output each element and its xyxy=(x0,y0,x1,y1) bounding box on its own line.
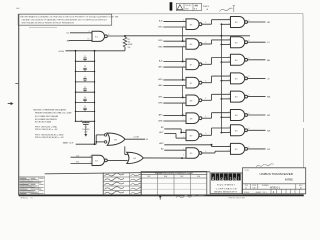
svg-text:4: 4 xyxy=(229,126,230,128)
svg-text:6: 6 xyxy=(248,147,249,149)
svg-text:3: 3 xyxy=(205,42,206,44)
row 8 output route xyxy=(202,152,215,154)
signature block xyxy=(140,172,142,196)
svg-text:3: 3 xyxy=(205,98,206,100)
wire +5 net xyxy=(125,35,250,37)
resistor R1 xyxy=(123,37,127,47)
svg-text:CHG NO: CHG NO xyxy=(185,5,192,7)
svg-text:3: 3 xyxy=(205,81,206,83)
svg-text:REV.: REV. xyxy=(299,185,303,187)
svg-text:6: 6 xyxy=(248,40,249,42)
+5 rail vertical xyxy=(220,24,222,132)
row 1 output route xyxy=(202,23,212,25)
svg-text:5: 5 xyxy=(229,97,230,99)
wire E4 out xyxy=(108,159,128,161)
wire MAST CLR xyxy=(76,143,97,145)
row 4 output route xyxy=(202,82,212,84)
svg-text:4: 4 xyxy=(90,155,91,157)
row 3 gate E7 nand xyxy=(186,59,199,70)
svg-text:4: 4 xyxy=(229,145,230,147)
signature squiggle 4 xyxy=(105,187,125,190)
svg-text:6: 6 xyxy=(248,20,249,22)
svg-text:6: 6 xyxy=(248,113,249,115)
svg-text:C2: C2 xyxy=(84,56,86,58)
svg-text:i: i xyxy=(225,176,226,181)
svg-text:M785-0-1: M785-0-1 xyxy=(21,197,28,199)
svg-text:PIN 7 ON E1,E5 = GND: PIN 7 ON E1,E5 = GND xyxy=(35,126,58,128)
row 3 output wire xyxy=(248,59,266,61)
wire E5 out long xyxy=(143,157,182,159)
svg-text:5: 5 xyxy=(229,150,230,152)
handwritten note xyxy=(256,164,274,167)
wire to gate inputs xyxy=(95,135,97,144)
wire output to R1 node xyxy=(108,35,125,37)
row 7 rail stub xyxy=(221,132,230,134)
zone tick xyxy=(15,83,18,85)
svg-text:7069 B: 7069 B xyxy=(203,6,210,8)
border frame bottom xyxy=(19,194,304,196)
row 1 output wire xyxy=(248,21,266,23)
svg-text:3: 3 xyxy=(205,151,206,153)
svg-text:UNLESS OTHERWISE INDICATED:: UNLESS OTHERWISE INDICATED: xyxy=(33,109,67,112)
border frame left xyxy=(18,14,20,195)
svg-text:1: 1 xyxy=(183,149,184,151)
svg-text:4: 4 xyxy=(229,93,230,95)
svg-text:1: 1 xyxy=(183,40,184,42)
row 3 gate E3 nand2 xyxy=(231,54,245,65)
row 6 rail stub xyxy=(221,116,230,118)
notes box xyxy=(18,14,112,25)
row 6 gate E4 nand2 xyxy=(231,110,245,121)
ladder left rail xyxy=(75,51,77,122)
row 8 output wire xyxy=(248,148,266,150)
svg-text:+DCA: +DCA xyxy=(58,50,64,53)
row 2 gate E2 nand2 xyxy=(231,37,245,48)
svg-text:4: 4 xyxy=(229,75,230,77)
row 1 gate E6 nand xyxy=(186,19,199,30)
wire input 1 xyxy=(70,32,92,34)
revision bar xyxy=(170,2,173,10)
svg-text:5: 5 xyxy=(90,162,91,164)
svg-text:C4: C4 xyxy=(84,77,86,79)
svg-text:1: 1 xyxy=(183,96,184,98)
svg-text:C7: C7 xyxy=(84,106,86,108)
digital logo box xyxy=(210,173,242,194)
svg-text:i: i xyxy=(217,176,218,181)
row 8 gate E5 nand2 xyxy=(231,143,245,154)
wire or input1 feed xyxy=(124,146,126,154)
digital logo squares xyxy=(211,174,215,181)
row 2 output wire xyxy=(248,41,266,43)
row 1 rail stub xyxy=(221,23,230,25)
gate E1 nand xyxy=(92,31,105,41)
border frame right xyxy=(302,14,304,122)
row 4 output wire xyxy=(248,77,266,79)
svg-text:SHEET 1 OF 1: SHEET 1 OF 1 xyxy=(256,192,267,194)
svg-text:5%: 5% xyxy=(128,47,131,49)
row 8 gate E9 nand xyxy=(186,148,199,159)
svg-text:C6: C6 xyxy=(84,97,86,99)
svg-text:1: 1 xyxy=(183,20,184,22)
row 5 output wire xyxy=(248,96,266,98)
strip left boundary xyxy=(102,173,104,196)
svg-text:3: 3 xyxy=(205,116,206,118)
border frame top xyxy=(19,13,303,15)
svg-text:1: 1 xyxy=(183,60,184,62)
wire ladder rung 5 xyxy=(76,102,95,104)
svg-text:PIN 7 ON E2,E3,E4,E5 = GND: PIN 7 ON E2,E3,E4,E5 = GND xyxy=(35,134,64,136)
up arrow annotation xyxy=(159,196,161,200)
svg-text:5: 5 xyxy=(229,79,230,81)
revision triangle xyxy=(177,5,183,10)
chain vertical row 2 xyxy=(182,47,184,62)
svg-text:PRINTED CIRCUIT REV.: PRINTED CIRCUIT REV. xyxy=(229,198,246,200)
ladder right rail xyxy=(94,51,96,144)
title strip top line xyxy=(45,172,210,174)
svg-text:C3: C3 xyxy=(84,66,86,68)
svg-text:TITLE: TITLE xyxy=(245,170,249,172)
gate E3 nor input bubbles xyxy=(104,134,106,136)
svg-text:5: 5 xyxy=(229,23,230,25)
row 2 rail stub xyxy=(221,44,230,46)
svg-text:5: 5 xyxy=(229,116,230,118)
svg-text:l: l xyxy=(238,176,239,181)
svg-text:E Q U I P M E N T: E Q U I P M E N T xyxy=(217,185,235,187)
wire ladder rung 2 xyxy=(76,71,95,73)
row 4 rail stub xyxy=(221,80,230,82)
svg-text:CS: CS xyxy=(30,197,32,199)
svg-text:4: 4 xyxy=(229,56,230,58)
row 2 output route xyxy=(202,43,212,45)
conversion chart xyxy=(141,171,207,195)
svg-text:RESISTORS ARE 470 OHM, 5%, 1/4: RESISTORS ARE 470 OHM, 5%, 1/4W xyxy=(35,112,71,115)
svg-text:M785-0-1: M785-0-1 xyxy=(270,188,281,190)
svg-text:UNIBUS TRANSCEIVER: UNIBUS TRANSCEIVER xyxy=(260,172,294,176)
svg-text:6: 6 xyxy=(248,94,249,96)
wire ladder rung 1 xyxy=(76,60,95,62)
wire ladder rung 7 xyxy=(76,120,95,122)
svg-text:9: 9 xyxy=(88,31,89,33)
parts list block xyxy=(19,176,45,178)
wire +DCA rail xyxy=(66,50,126,52)
svg-text:5: 5 xyxy=(229,43,230,45)
row 5 gate E4 nand2 xyxy=(231,91,245,102)
row 4 gate E3 nand2 xyxy=(231,73,245,84)
chain vertical row 1 xyxy=(182,27,184,41)
row 6 output wire xyxy=(248,114,266,116)
svg-text:2: 2 xyxy=(183,66,184,68)
svg-text:WRITTEN AND IN WHOLE PERMIT WI: WRITTEN AND IN WHOLE PERMIT WITHOUT PERM… xyxy=(22,22,75,25)
row 7 gate E9 nand xyxy=(186,130,199,141)
row 6 output route xyxy=(202,117,212,119)
svg-text:6: 6 xyxy=(248,76,249,78)
row 7 gate E5 nand2 xyxy=(231,125,245,136)
signature squiggle 3 xyxy=(105,182,125,185)
svg-text:PIN 14 ON E2,E3,E4,E5 = +5V: PIN 14 ON E2,E3,E4,E5 = +5V xyxy=(35,137,64,139)
svg-text:CODE: CODE xyxy=(252,185,256,187)
svg-text:3: 3 xyxy=(205,22,206,24)
svg-text:6: 6 xyxy=(248,128,249,130)
svg-text:2: 2 xyxy=(183,26,184,28)
signature squiggle 1 xyxy=(105,173,125,176)
svg-text:10: 10 xyxy=(87,39,89,41)
svg-text:CS: CS xyxy=(252,188,256,190)
svg-text:5: 5 xyxy=(229,61,230,63)
gate E4 nand xyxy=(92,155,105,165)
wire ladder rung 6 xyxy=(76,111,95,113)
svg-text:E5 IS DEC7400N: E5 IS DEC7400N xyxy=(35,122,52,124)
wire input 1 xyxy=(71,156,93,158)
row 6 gate E8 nand xyxy=(186,113,199,124)
handwriting under border xyxy=(176,195,204,197)
svg-text:USE AND CIRCULATION OF SAME AN: USE AND CIRCULATION OF SAME AND THE HOLD… xyxy=(22,19,108,22)
capacitor C1 xyxy=(85,121,87,122)
row 3 output route xyxy=(202,63,212,65)
row 5 output route xyxy=(202,99,212,101)
svg-text:B: B xyxy=(196,8,197,10)
chain vertical row 5 xyxy=(182,103,184,115)
row 5 gate E8 nand xyxy=(186,95,199,106)
svg-text:C O R P O R A T I O N: C O R P O R A T I O N xyxy=(216,187,237,190)
wire input 2 xyxy=(69,39,93,41)
wire ladder rung 3 xyxy=(76,81,95,83)
row 2 gate E6 nand xyxy=(186,39,199,50)
svg-text:1: 1 xyxy=(183,78,184,80)
signature squiggle 5 xyxy=(105,191,125,194)
svg-text:2: 2 xyxy=(183,84,184,86)
svg-text:6: 6 xyxy=(248,58,249,60)
svg-text:C5: C5 xyxy=(84,87,86,89)
svg-text:3: 3 xyxy=(205,133,206,135)
wire DCB out xyxy=(125,138,145,140)
svg-text:PIN 14 ON E1,E5 = +5V: PIN 14 ON E1,E5 = +5V xyxy=(35,129,58,131)
svg-text:7069: 7069 xyxy=(194,6,198,8)
node R1 top xyxy=(124,35,126,37)
size/code/number row xyxy=(243,183,306,185)
row 5 rail stub xyxy=(221,98,230,100)
row 7 output route xyxy=(202,134,212,136)
signature squiggle 2 xyxy=(105,178,125,181)
gate E3 xyxy=(107,133,125,145)
svg-text:4: 4 xyxy=(229,18,230,20)
dist boxes xyxy=(281,189,283,194)
svg-text:2: 2 xyxy=(183,46,184,48)
wire ladder rung 4 xyxy=(76,91,95,93)
wire input 2 xyxy=(71,163,93,165)
chain vertical row 3 xyxy=(182,67,184,80)
svg-text:2: 2 xyxy=(183,155,184,157)
svg-text:5: 5 xyxy=(229,131,230,133)
svg-text:1: 1 xyxy=(183,131,184,133)
checker squiggle xyxy=(220,8,233,11)
svg-text:E1,C2 ARE DEC74H04N: E1,C2 ARE DEC74H04N xyxy=(35,115,59,118)
svg-text:1: 1 xyxy=(183,114,184,116)
row 7 output wire xyxy=(248,129,266,131)
svg-text:M785: M785 xyxy=(285,177,293,181)
svg-text:4: 4 xyxy=(229,111,230,113)
row 3 rail stub xyxy=(221,61,230,63)
zone arrow xyxy=(8,103,11,105)
title box xyxy=(243,168,306,194)
svg-text:MAST CLR: MAST CLR xyxy=(63,141,74,144)
svg-text:2: 2 xyxy=(183,120,184,122)
svg-text:E2,D4 ARE DEC8881N: E2,D4 ARE DEC8881N xyxy=(35,118,57,121)
svg-text:2: 2 xyxy=(183,102,184,104)
svg-text:+ DCB: + DCB xyxy=(133,137,140,139)
svg-text:4: 4 xyxy=(229,38,230,40)
revision table xyxy=(176,3,201,10)
corner tick xyxy=(16,7,19,9)
svg-text:SIZE: SIZE xyxy=(245,185,248,187)
svg-text:THE INFORMATION CONTAINED ON T: THE INFORMATION CONTAINED ON THIS DWG IS… xyxy=(20,16,119,19)
chain vertical row 4 xyxy=(182,86,184,98)
gate E5 or xyxy=(127,152,144,163)
svg-text:7069: 7069 xyxy=(185,8,189,10)
svg-text:3: 3 xyxy=(205,62,206,64)
svg-text:NUMBER: NUMBER xyxy=(262,185,269,187)
row 4 gate E7 nand xyxy=(186,77,199,88)
svg-text:2: 2 xyxy=(183,137,184,139)
row 1 gate E2 nand2 xyxy=(231,17,245,28)
